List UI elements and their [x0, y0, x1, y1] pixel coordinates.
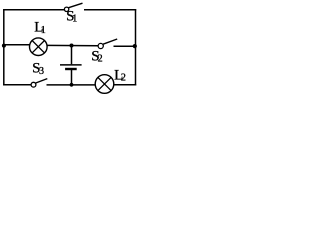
wire middle-center segment: [47, 44, 98, 46]
wire bottom-right segment: [114, 84, 137, 86]
wire middle-left segment: [4, 44, 30, 46]
node left T dot: [2, 44, 6, 48]
wire bottom-left segment: [3, 84, 31, 86]
wire right border: [135, 9, 137, 85]
node middle junction dot: [70, 44, 74, 48]
svg-text:1: 1: [41, 25, 46, 36]
svg-text:3: 3: [39, 66, 44, 77]
node bottom T dot: [70, 83, 74, 87]
label L2: [114, 67, 126, 83]
svg-text:2: 2: [121, 73, 126, 84]
label S2: [91, 48, 102, 64]
battery short plate: [65, 68, 77, 70]
node right T dot: [133, 44, 137, 48]
battery long plate: [60, 64, 82, 66]
lamp L2: [95, 75, 114, 94]
wire top-right segment: [84, 9, 136, 11]
wire middle-right segment: [114, 45, 136, 47]
wire left border: [3, 9, 5, 85]
wire bottom-middle segment: [47, 84, 96, 86]
label S3: [32, 61, 44, 77]
label S1: [66, 8, 77, 24]
switch S3: [31, 79, 47, 88]
svg-text:1: 1: [72, 14, 77, 25]
label L1: [34, 20, 46, 37]
battery bottom wire: [71, 70, 73, 85]
lamp L1: [30, 38, 48, 56]
wire top-left segment: [3, 9, 64, 11]
switch S1: [64, 3, 82, 11]
battery top wire: [71, 45, 73, 64]
svg-text:2: 2: [98, 53, 103, 64]
switch S2: [98, 39, 117, 49]
